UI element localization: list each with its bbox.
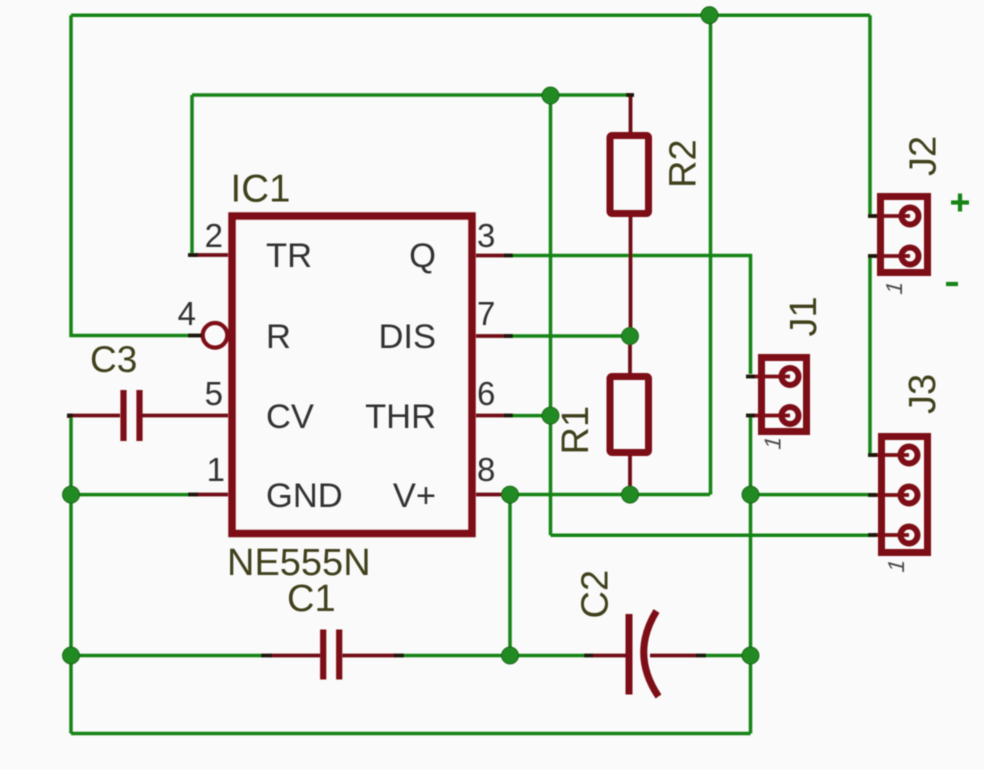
wire V+ to cap rail x510 <box>508 495 512 656</box>
junction C1 left GND <box>63 647 80 664</box>
connector J1 body <box>762 358 807 432</box>
junction THR node <box>542 407 559 424</box>
pin 6 stub <box>476 414 506 418</box>
svg-text:6: 6 <box>477 375 495 412</box>
svg-text:R: R <box>266 318 291 356</box>
svg-text:5: 5 <box>205 375 223 412</box>
junction C2 right GND <box>742 647 759 664</box>
svg-text:J3: J3 <box>902 374 944 414</box>
svg-text:CV: CV <box>266 398 314 436</box>
wire right vertical to J2 pin1 <box>868 15 872 216</box>
connector J3 pin 2 <box>874 493 909 497</box>
svg-text:R1: R1 <box>555 406 597 455</box>
op IC1 body <box>232 216 472 534</box>
svg-text:THR: THR <box>365 398 436 436</box>
pin 5 stub + C3 right lead <box>142 414 228 418</box>
capacitor C1 plates <box>323 630 339 680</box>
minus symbol J2 <box>946 282 958 286</box>
wire THR pin6 <box>512 414 551 418</box>
wire TR/THR vertical x551 <box>549 96 553 536</box>
junction R1 bottom <box>622 486 639 503</box>
wire C2 left <box>510 654 585 658</box>
junction cap rail mid <box>502 647 519 664</box>
capacitor C2 leads <box>592 654 697 658</box>
svg-text:Q: Q <box>409 237 436 275</box>
wire C2 right <box>704 654 751 658</box>
wire C1 left <box>71 654 262 658</box>
wire GND left vertical <box>69 416 73 734</box>
junction top rail x709 <box>701 7 718 24</box>
wire DIS net <box>512 334 630 338</box>
pin 4 bubble <box>203 323 228 348</box>
pin 2 stub <box>190 253 228 257</box>
plus symbol J2 <box>951 194 969 212</box>
resistor R2 body <box>610 136 649 214</box>
wire GND pin1 horizontal <box>71 493 190 497</box>
pin 1 stub <box>196 493 228 497</box>
wire GND riser x750 from J1 pin2 to bottom <box>749 417 753 734</box>
svg-text:4: 4 <box>178 295 196 332</box>
svg-text:C3: C3 <box>90 339 137 380</box>
connector J1 pin 1 <box>752 375 790 379</box>
svg-text:8: 8 <box>477 451 495 488</box>
svg-text:C2: C2 <box>575 570 617 619</box>
junction GND x750 <box>742 486 759 503</box>
wire GND right horizontal to J3 pin2 <box>751 493 877 497</box>
resistor R1 body <box>610 377 649 453</box>
svg-text:V+: V+ <box>393 477 436 515</box>
capacitor C3 leads <box>69 416 120 419</box>
wire TR net horizontal <box>192 93 628 97</box>
wire J2 pin2 to J3 pin1 <box>870 256 876 455</box>
connector J2 pin 2 <box>874 254 910 258</box>
wire left vertical to reset pin4 <box>71 15 190 335</box>
svg-text:1: 1 <box>207 451 225 488</box>
pin 7 stub <box>476 334 506 338</box>
svg-text:2: 2 <box>205 217 223 254</box>
resistor R1 leads <box>628 340 632 495</box>
capacitor C1 leads <box>270 654 396 658</box>
capacitor C2 straight plate <box>626 614 633 695</box>
wire top V+ rail <box>71 13 870 17</box>
wire THR net to J3 pin3 <box>551 534 877 538</box>
junction TR/R2 top <box>542 87 559 104</box>
wire V+ pin8 horizontal <box>506 493 710 497</box>
connector J3 pin 1 <box>874 453 909 457</box>
wire TR vertical to pin2 <box>190 95 194 255</box>
capacitor C3 plates <box>124 390 140 441</box>
svg-text:7: 7 <box>477 295 495 332</box>
svg-text:TR: TR <box>266 237 312 275</box>
capacitor C2 curved plate <box>644 611 659 697</box>
wire C1 right <box>399 654 510 658</box>
pin 3 stub <box>476 254 506 258</box>
resistor R2 leads <box>629 95 633 332</box>
svg-text:GND: GND <box>266 477 343 515</box>
svg-text:DIS: DIS <box>378 318 436 356</box>
svg-text:J2: J2 <box>903 136 945 176</box>
pin 8 stub <box>476 493 506 497</box>
connector J3 pin 3 <box>874 533 909 537</box>
wire GND bottom <box>71 732 751 736</box>
svg-text:R2: R2 <box>663 139 705 188</box>
connector J1 pin 2 <box>752 414 790 418</box>
svg-text:3: 3 <box>477 217 495 254</box>
svg-text:IC1: IC1 <box>231 168 291 211</box>
junction V+ pin8 <box>502 486 519 503</box>
connector J3 body <box>882 437 928 553</box>
svg-text:J1: J1 <box>783 296 825 336</box>
junction GND left pin1 <box>63 486 80 503</box>
junction DIS node <box>622 328 639 345</box>
wire V+ riser x710 <box>709 15 713 494</box>
connector J2 pin 1 <box>874 214 910 218</box>
connector J2 body <box>881 197 928 273</box>
svg-text:C1: C1 <box>287 578 336 620</box>
wire Q output to J1 pin1 <box>512 256 751 375</box>
